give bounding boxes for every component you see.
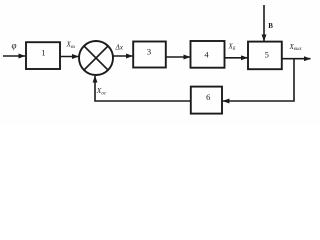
svg-text:Δx: Δx [115, 42, 124, 51]
svg-text:В: В [268, 22, 273, 30]
svg-text:3: 3 [147, 47, 151, 57]
svg-text:1: 1 [41, 47, 45, 57]
svg-text:5: 5 [265, 50, 269, 60]
svg-text:6: 6 [206, 92, 210, 102]
svg-text:φ: φ [12, 40, 17, 50]
